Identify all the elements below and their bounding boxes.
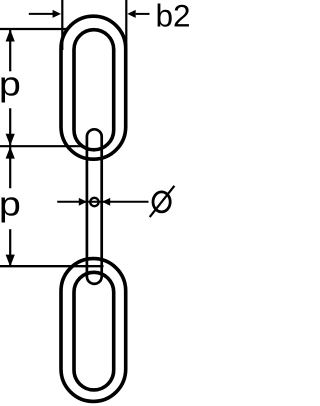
dimension line p middle segment	[9, 108, 11, 188]
extension line pitch bottom (inner bottom of middle link)	[0, 265, 104, 267]
arrowhead b2 right (points left)	[127, 10, 135, 18]
arrowhead p bottom (points down)	[6, 255, 15, 267]
chain link top (front view) inner contour	[74, 30, 114, 150]
chain link top (front view) outer contour	[61, 16, 126, 159]
dimension line p upper segment	[9, 30, 11, 71]
extension line pitch top (inner top of upper link)	[0, 28, 67, 30]
dimension line diameter (through middle link)	[57, 201, 148, 203]
chain link bottom (front view) inner contour	[74, 272, 114, 390]
svg-text:b2: b2	[156, 0, 191, 34]
arrowhead b2 left (points right)	[53, 10, 61, 18]
dimension line b2 right segment	[136, 13, 150, 15]
label diameter slash	[150, 186, 175, 217]
arrowhead p middle upper (points down)	[6, 134, 15, 146]
arrowhead diameter left (points right)	[79, 198, 87, 206]
wire cross-section circle on middle link	[90, 198, 98, 206]
chain link middle (edge view) outline	[87, 129, 102, 284]
arrowhead p middle lower (points up)	[6, 147, 15, 159]
extension line b2 left	[61, 0, 63, 50]
extension line pitch middle (inner bottom of upper link)	[0, 145, 84, 147]
dimension line b2 left segment	[29, 13, 54, 15]
extension line b2 right	[125, 0, 127, 50]
label diameter O ring	[153, 192, 170, 212]
svg-text:p: p	[0, 65, 21, 103]
dimension line p lower segment	[9, 229, 11, 266]
arrowhead diameter right (points left)	[102, 198, 110, 206]
arrowhead p top (points up)	[6, 29, 15, 41]
chain link bottom (front view) outer contour	[61, 259, 126, 402]
svg-text:p: p	[0, 185, 21, 223]
